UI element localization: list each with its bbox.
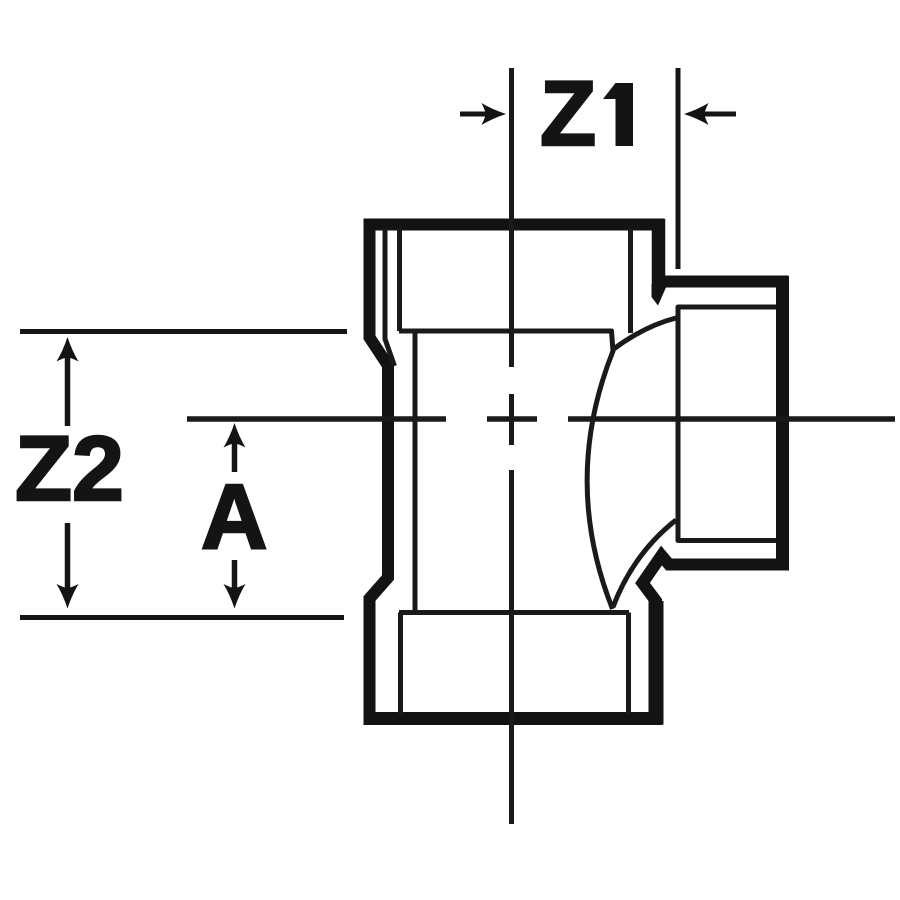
svg-text:Z: Z	[540, 63, 596, 165]
svg-text:Z2: Z2	[15, 418, 124, 520]
svg-text:A: A	[201, 466, 267, 568]
